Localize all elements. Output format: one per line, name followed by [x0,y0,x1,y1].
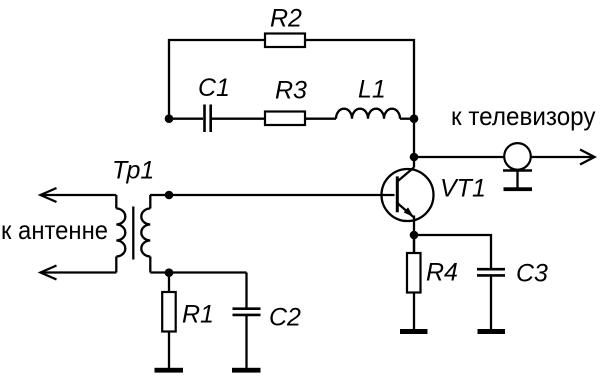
svg-text:R1: R1 [182,301,214,329]
wire R4 top lead [413,235,415,253]
svg-text:VT1: VT1 [440,175,486,203]
wire R1 top lead [168,273,170,293]
transformer Tp1 [116,195,150,273]
wire top feedback loop [169,40,414,119]
connector stem [516,171,518,188]
svg-text:C2: C2 [269,304,301,332]
node junction L1/R2 [410,114,419,123]
wire C2 bottom lead [245,316,247,368]
ground R1 [155,368,184,373]
wire C1 to R3 [212,118,265,120]
wire C1 row left [169,118,203,120]
svg-text:R2: R2 [270,5,302,33]
svg-text:C3: C3 [516,260,548,288]
wire R4 bottom lead [413,293,415,330]
svg-text:R3: R3 [275,77,307,105]
svg-text:R4: R4 [426,259,458,287]
transistor VT1 [382,167,434,221]
svg-text:C1: C1 [198,74,230,102]
wire right vertical to collector [413,119,415,168]
ground C3 [478,329,506,334]
capacitor C2 [233,309,261,315]
wire antenna top arm [41,194,116,196]
wire emitter down [413,216,415,254]
wire R1 bottom lead [168,332,170,369]
connector body plate [503,169,532,172]
ground C2 [232,368,261,373]
wire C3 bottom lead [490,277,492,330]
arrow antenna top [41,188,57,202]
node junction transformer bottom [165,268,174,277]
node junction collector/output [410,153,419,162]
wire antenna bottom arm [41,271,116,273]
capacitor C3 [477,269,505,275]
wire R3 to L1 [305,118,336,120]
wire bottom row to C2 [150,271,246,273]
arrow to TV [580,150,595,165]
svg-text:к антенне: к антенне [1,215,108,245]
resistor R1 [162,292,176,332]
svg-text:L1: L1 [358,76,386,104]
wire L1 to right vertical [400,118,414,120]
wire C3 top lead [414,235,491,268]
resistor R3 [265,112,305,126]
ground R4 [400,329,428,334]
resistor R2 [265,34,305,48]
node junction emitter/R4/C3 [410,231,419,240]
capacitor C1 [205,105,211,133]
node junction base/transformer top [165,191,174,200]
connector socket circle [504,143,531,170]
arrow antenna bottom [41,266,57,280]
connector ground bar [504,187,533,191]
wire C2 top lead [245,273,247,308]
svg-text:Тр1: Тр1 [112,157,154,185]
inductor L1 [336,109,400,119]
wire output line [414,156,593,158]
wire base row [150,194,395,196]
resistor R4 [407,253,421,293]
svg-text:к телевизору: к телевизору [451,101,596,131]
node junction C1/feedback [165,114,174,123]
